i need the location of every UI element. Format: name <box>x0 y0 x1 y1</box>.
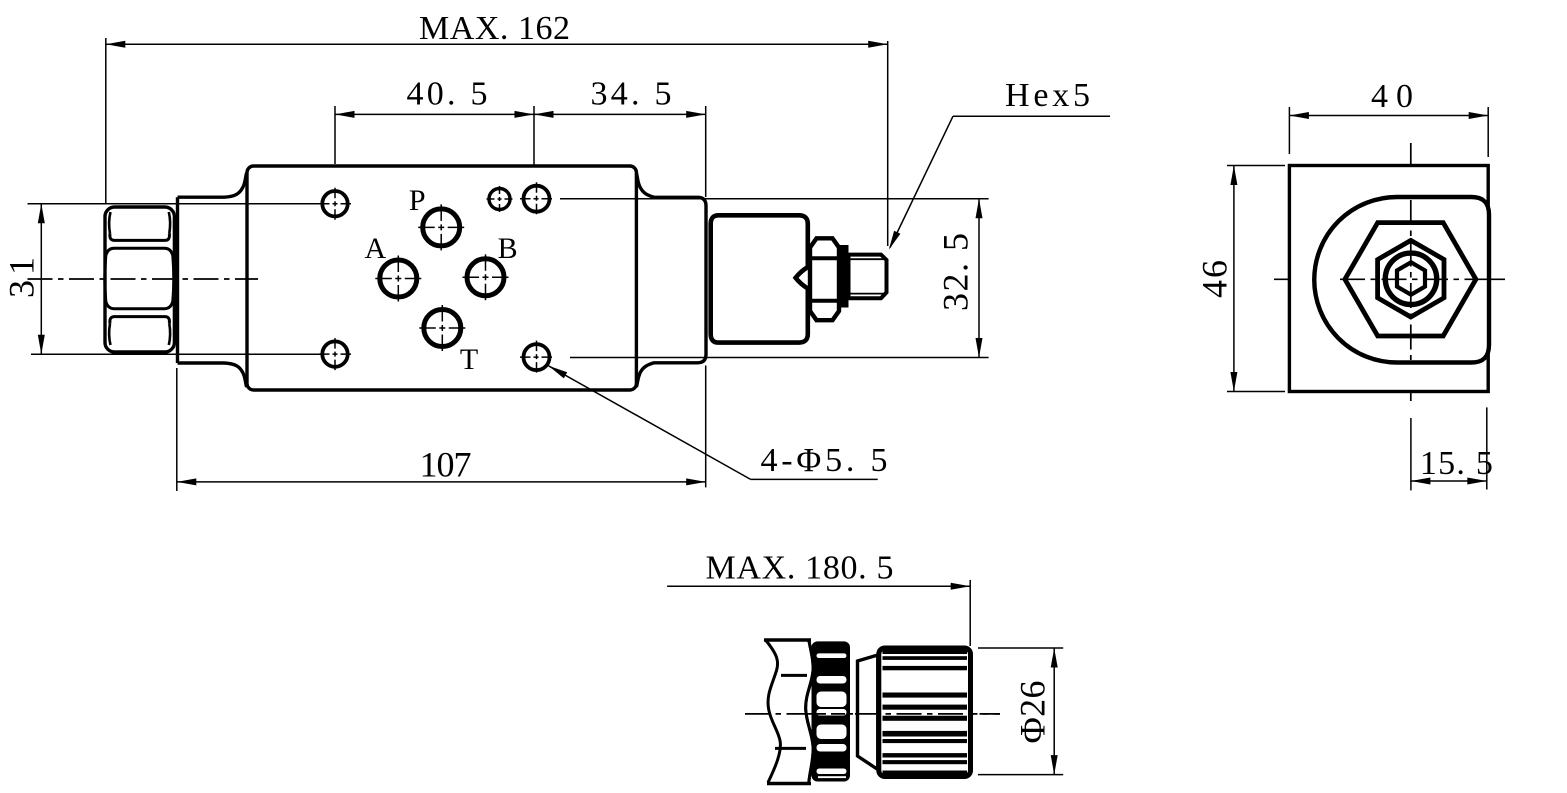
dimension 40.5 <box>335 76 534 166</box>
leader Hex5 <box>886 77 1110 251</box>
svg-text:B: B <box>498 232 518 265</box>
dimension 15.5 <box>1411 407 1493 490</box>
centerline main view <box>28 278 259 280</box>
side view hex socket <box>1397 262 1425 294</box>
hex plug nut <box>105 207 174 352</box>
dimension PHI26 <box>978 648 1063 775</box>
handle break wavy lines over ring <box>806 640 814 783</box>
side view circle <box>1385 253 1436 304</box>
leader 4-PHI5.5 <box>547 363 888 480</box>
svg-text:P: P <box>409 184 426 217</box>
right neck (tube between body and adjuster) <box>636 173 706 387</box>
port label T <box>460 343 478 376</box>
knurled lock ring <box>812 641 851 781</box>
dimension 34.5 <box>534 76 706 198</box>
hex plug nut facets <box>105 212 174 345</box>
mounting hole top-right <box>520 182 553 215</box>
handle shaft break <box>764 640 813 784</box>
svg-text:MAX. 162: MAX. 162 <box>419 10 570 47</box>
svg-text:T: T <box>460 343 478 376</box>
mounting hole bottom-right <box>520 341 553 374</box>
mounting hole top-left <box>319 188 351 220</box>
side view centerlines <box>1274 143 1505 401</box>
centerline across knob <box>855 713 1000 715</box>
bottom view centerline <box>745 713 1000 715</box>
threaded stub <box>849 255 887 299</box>
svg-text:32. 5: 32. 5 <box>936 233 976 311</box>
valve body outline <box>247 166 636 390</box>
side view large hexagon <box>1345 223 1476 336</box>
port label P <box>409 184 426 217</box>
dimension MAX.162 <box>106 10 888 246</box>
dimension 46 <box>1195 166 1286 392</box>
knurled knob <box>879 648 971 777</box>
port label A <box>364 232 386 265</box>
dimension 40 <box>1289 78 1488 157</box>
side view square flange <box>1289 166 1488 392</box>
bottom view centerline over ring <box>812 713 848 715</box>
svg-text:Φ26: Φ26 <box>1013 681 1053 744</box>
port P hole <box>418 204 464 250</box>
side view capsule boss <box>1314 197 1489 363</box>
port T hole <box>419 305 465 351</box>
dimension MAX.180.5 <box>667 549 970 646</box>
locating pin hole <box>487 186 513 212</box>
svg-text:MAX. 180. 5: MAX. 180. 5 <box>706 549 894 586</box>
mounting hole bottom-left <box>319 338 351 370</box>
adjuster cap (rounded, with V-notch) <box>711 215 808 342</box>
svg-text:A: A <box>364 232 386 265</box>
port B hole <box>463 254 509 300</box>
dimension 31 <box>2 204 323 355</box>
left neck (tube between plug nut and body) <box>178 173 247 387</box>
svg-text:15. 5: 15. 5 <box>1420 445 1493 482</box>
dimension 32.5 <box>560 199 989 358</box>
svg-text:107: 107 <box>420 445 472 485</box>
lock washer (filled) <box>839 245 848 308</box>
cone transition <box>858 655 878 770</box>
side view middle hexagon <box>1378 240 1444 317</box>
port A hole <box>375 256 421 302</box>
svg-text:Hex5: Hex5 <box>1005 77 1090 114</box>
svg-text:40. 5: 40. 5 <box>407 76 488 113</box>
adjuster hex nut (side view) <box>810 238 839 320</box>
svg-text:34. 5: 34. 5 <box>591 76 672 113</box>
port label B <box>498 232 518 265</box>
side view centerline redraw <box>1340 200 1490 360</box>
dimension 107 <box>177 366 706 492</box>
